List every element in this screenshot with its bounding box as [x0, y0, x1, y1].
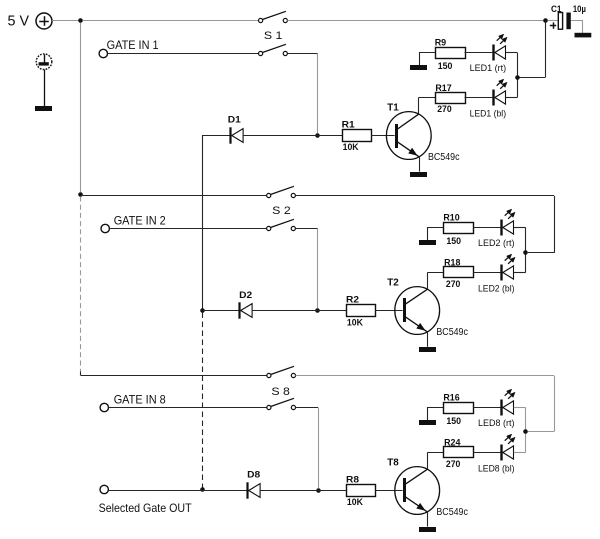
label BC549c	[436, 507, 468, 518]
capacitor C1 10u	[550, 4, 586, 29]
LED LED8 (bl)	[502, 434, 516, 460]
ground bar R9	[410, 65, 427, 70]
wire LED feed vertical 8	[554, 376, 556, 431]
node: drop 1 joins base line	[315, 133, 320, 138]
ground bar (earth)	[35, 106, 52, 111]
resistor R8 10K	[347, 485, 376, 497]
svg-text:C1: C1	[551, 4, 562, 14]
ground bar (C1)	[575, 33, 592, 38]
svg-text:LED2 (bl): LED2 (bl)	[478, 284, 515, 294]
wire junction 8 to feed	[528, 431, 554, 433]
switch S 1 pole b	[259, 44, 288, 55]
svg-text:R17: R17	[435, 83, 451, 94]
svg-text:R8: R8	[346, 474, 359, 485]
node: C1 junction	[543, 18, 548, 23]
terminal Selected Gate OUT	[100, 485, 108, 493]
wire output bus solid	[202, 135, 204, 310]
wire R16 to ground	[428, 408, 444, 421]
label BC549c	[428, 152, 460, 163]
label R10	[443, 213, 459, 224]
transistor T8	[395, 467, 440, 515]
label S 2	[272, 205, 291, 217]
wire base line 2 from bus	[203, 310, 239, 312]
resistor R9 150	[436, 48, 466, 59]
diode D8	[248, 482, 261, 498]
ground bar emitter 1	[410, 172, 427, 177]
label 270	[437, 104, 452, 115]
resistor R1 10K	[343, 130, 372, 142]
wire LED bl 2 to junction	[514, 253, 526, 273]
wire emitter 2 down	[427, 332, 429, 347]
wire diode to R8	[260, 490, 346, 492]
dashed output bus	[202, 313, 204, 488]
svg-text:150: 150	[438, 61, 453, 72]
wire gate input 8	[109, 407, 267, 409]
svg-text:Selected Gate OUT: Selected Gate OUT	[99, 501, 193, 515]
svg-text:D1: D1	[228, 115, 242, 126]
node: LED junction 1	[515, 75, 520, 80]
label 10K	[347, 317, 363, 328]
svg-text:10K: 10K	[347, 497, 363, 508]
label LED2 (bl)	[478, 284, 515, 294]
wire gate input 2	[109, 228, 266, 230]
wire R10 to ground	[428, 228, 444, 241]
wire R9 to LED rt	[465, 52, 493, 54]
terminal GATE IN 2	[101, 224, 109, 232]
wire earth stem	[44, 70, 46, 107]
wire R1 to base	[371, 135, 395, 137]
wire +5V branch 8 left of switch	[81, 375, 267, 377]
label R8	[346, 474, 359, 485]
svg-text:LED1 (rt): LED1 (rt)	[470, 63, 507, 73]
wire R18 to LED bl	[473, 272, 501, 274]
earth terminal	[36, 54, 52, 70]
svg-text:T8: T8	[387, 456, 399, 468]
label 270	[446, 459, 461, 470]
LED LED2 (bl)	[502, 254, 516, 280]
svg-text:GATE IN 8: GATE IN 8	[114, 392, 166, 406]
resistor R24 270	[444, 447, 474, 458]
wire collector to R17	[419, 97, 435, 99]
LED LED1 (rt)	[494, 34, 508, 60]
resistor R10 150	[444, 223, 474, 234]
wire drop 2	[317, 229, 319, 308]
wire R24 to LED bl	[473, 452, 501, 454]
svg-text:270: 270	[437, 104, 452, 115]
label R24	[444, 438, 461, 449]
label Selected Gate OUT	[99, 501, 193, 515]
label D1	[228, 115, 242, 126]
node: stage2 rail tap	[78, 192, 83, 197]
wire junction 2 to feed	[528, 252, 554, 254]
vertical +5V bus	[80, 23, 82, 192]
wire drop 8	[318, 408, 320, 488]
label T8	[387, 456, 399, 468]
label R2	[346, 295, 359, 306]
label LED1 (rt)	[470, 63, 507, 73]
label 10K	[347, 497, 363, 508]
wire C1 to ground	[571, 21, 583, 34]
label 150	[446, 416, 461, 427]
resistor R17 270	[436, 93, 466, 104]
wire +5V branch 8 right of switch	[296, 375, 555, 377]
wire R9 to ground	[420, 53, 436, 66]
resistor R2 10K	[347, 305, 376, 317]
svg-text:D2: D2	[239, 290, 252, 301]
wire R10 to LED rt	[473, 227, 501, 229]
label GATE IN 2	[114, 213, 166, 227]
transistor T1	[386, 112, 431, 160]
svg-text:270: 270	[446, 279, 461, 290]
svg-text:5 V: 5 V	[8, 12, 30, 29]
label R17	[435, 83, 451, 94]
resistor R16 150	[444, 403, 474, 414]
wire collector 1 up	[418, 98, 420, 114]
LED LED8 (rt)	[502, 389, 516, 415]
svg-text:R10: R10	[443, 213, 459, 224]
wire gate 1 after switch	[287, 53, 317, 55]
svg-text:270: 270	[446, 459, 461, 470]
ground bar R16	[419, 420, 436, 425]
diode D2	[240, 302, 253, 318]
label 10K	[343, 142, 359, 153]
label S 1	[264, 30, 283, 42]
wire drop 1	[317, 54, 319, 133]
label LED2 (rt)	[478, 238, 515, 248]
wire +5V rail left of S1	[83, 20, 259, 22]
diode D1	[231, 127, 244, 143]
svg-text:150: 150	[446, 236, 461, 247]
label R1	[342, 119, 356, 130]
wire LED feed vertical 1	[545, 21, 547, 77]
wire R16 to LED rt	[473, 407, 501, 409]
svg-text:LED2 (rt): LED2 (rt)	[478, 238, 515, 248]
terminal GATE IN 1	[99, 49, 107, 57]
ground bar R10	[419, 240, 436, 245]
node: 5V bus junction	[78, 18, 83, 23]
svg-text:R9: R9	[435, 38, 447, 49]
node: drop 8 joins base line	[316, 488, 321, 493]
svg-text:S 2: S 2	[272, 205, 291, 217]
svg-text:LED1 (bl): LED1 (bl)	[470, 109, 507, 119]
wire LED feed vertical 2	[554, 196, 556, 253]
svg-text:GATE IN 2: GATE IN 2	[114, 213, 166, 227]
wire diode to R1	[243, 135, 342, 137]
label 270	[446, 279, 461, 290]
dashed bus continuation	[80, 197, 82, 376]
wire 5V to bus	[52, 20, 79, 22]
wire LED bl 1 to junction	[505, 77, 517, 97]
label S 8	[271, 386, 290, 398]
wire gate input 1	[108, 53, 259, 55]
label 150	[438, 61, 453, 72]
wire collector to R18	[428, 272, 444, 274]
wire +5V branch 2 right of switch	[295, 195, 554, 197]
5V supply terminal	[8, 12, 53, 29]
label GATE IN 1	[107, 38, 159, 52]
wire collector 8 up	[427, 452, 429, 468]
node: LED junction 8	[523, 429, 528, 434]
wire base line 1 from bus	[203, 135, 230, 137]
wire LED rt 2 to junction	[514, 228, 526, 253]
wire emitter 1 down	[419, 157, 421, 172]
resistor R18 270	[444, 267, 474, 278]
node: drop 2 joins base line	[315, 308, 320, 313]
wire LED rt 8 to junction	[514, 408, 526, 432]
wire gate 8 after switch	[296, 407, 319, 409]
svg-text:BC549c: BC549c	[436, 327, 468, 338]
label R9	[435, 38, 447, 49]
svg-text:S 8: S 8	[271, 386, 290, 398]
svg-text:LED8 (rt): LED8 (rt)	[478, 418, 515, 428]
svg-text:R1: R1	[342, 119, 356, 130]
wire junction to C1	[548, 20, 559, 22]
svg-text:R18: R18	[444, 258, 460, 269]
svg-text:R16: R16	[443, 392, 459, 403]
svg-text:T2: T2	[387, 277, 399, 289]
wire emitter 8 down	[427, 512, 429, 527]
svg-text:S 1: S 1	[264, 30, 283, 42]
switch S 8 pole a	[267, 366, 296, 377]
wire LED rt 1 to junction	[505, 53, 517, 78]
label T2	[387, 277, 399, 289]
wire gate 2 after switch	[295, 228, 317, 230]
transistor T2	[395, 287, 440, 335]
ground bar emitter 8	[419, 527, 436, 532]
label D8	[247, 470, 260, 481]
LED LED2 (rt)	[502, 209, 516, 235]
label R18	[444, 258, 460, 269]
wire R17 to LED bl	[465, 97, 493, 99]
wire +5V rail right of S1	[287, 20, 543, 22]
wire LED bl 8 to junction	[514, 432, 526, 453]
svg-text:T1: T1	[387, 101, 399, 113]
wire R8 to base	[375, 490, 402, 492]
ground bar emitter 2	[419, 347, 436, 352]
node: D2 junction	[200, 308, 205, 313]
svg-text:10K: 10K	[343, 142, 359, 153]
label LED1 (bl)	[470, 109, 507, 119]
label GATE IN 8	[114, 392, 166, 406]
svg-text:D8: D8	[247, 470, 260, 481]
terminal GATE IN 8	[100, 403, 108, 411]
label 150	[446, 236, 461, 247]
svg-text:R2: R2	[346, 295, 359, 306]
wire diode to R2	[252, 310, 346, 312]
node: LED junction 2	[523, 250, 528, 255]
switch S1 pole a	[259, 11, 288, 22]
label R16	[443, 392, 459, 403]
svg-text:10K: 10K	[347, 317, 363, 328]
wire +5V branch 2 left of switch	[81, 195, 267, 197]
switch S 2 pole a	[267, 186, 296, 197]
svg-text:BC549c: BC549c	[436, 507, 468, 518]
svg-text:LED8 (bl): LED8 (bl)	[478, 464, 515, 474]
svg-text:R24: R24	[444, 438, 461, 449]
wire junction 1 to feed	[520, 77, 546, 79]
label LED8 (rt)	[478, 418, 515, 428]
wire collector 2 up	[427, 272, 429, 289]
switch S 2 pole b	[267, 219, 296, 230]
svg-text:GATE IN 1: GATE IN 1	[107, 38, 159, 52]
switch S 8 pole b	[267, 398, 296, 409]
label LED8 (bl)	[478, 464, 515, 474]
svg-text:10µ: 10µ	[573, 4, 586, 14]
label T1	[387, 101, 399, 113]
wire collector to R24	[428, 452, 444, 454]
wire Selected Gate OUT to D8	[108, 490, 246, 492]
node: D8 junction	[200, 487, 205, 492]
label BC549c	[436, 327, 468, 338]
wire R2 to base	[375, 310, 402, 312]
label D2	[239, 290, 252, 301]
svg-text:150: 150	[446, 416, 461, 427]
svg-text:BC549c: BC549c	[428, 152, 460, 163]
LED LED1 (bl)	[494, 79, 508, 105]
